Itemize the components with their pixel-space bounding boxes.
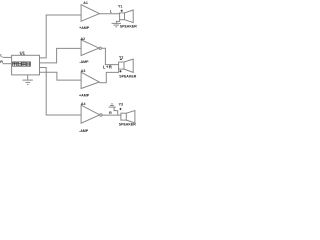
- svg-text:-AMP: -AMP: [79, 60, 89, 64]
- input wire L: [3, 56, 12, 58]
- svg-text:A1: A1: [83, 1, 88, 5]
- svg-text:L+R: L+R: [103, 65, 113, 70]
- wire A4 to speaker Y3: [102, 114, 121, 116]
- speaker Y1: [120, 10, 134, 23]
- op-amp A4: [81, 105, 100, 123]
- wire out1 to A1: [40, 15, 82, 58]
- op-amp A2: [81, 40, 99, 56]
- block U1 (divider circuit): [12, 55, 40, 75]
- svg-text:SPEAKER: SPEAKER: [119, 123, 136, 127]
- svg-text:R: R: [109, 111, 112, 115]
- svg-text:SPEAKER: SPEAKER: [119, 75, 136, 79]
- svg-text:U1: U1: [20, 50, 26, 55]
- label + (speaker Y2): [119, 70, 121, 72]
- wire A2 to speaker Y2 minus terminal: [101, 48, 118, 64]
- label + (speaker Y1): [121, 10, 123, 12]
- op-amp A3: [81, 72, 99, 88]
- label + (speaker Y3): [119, 108, 121, 110]
- svg-text:Y1: Y1: [118, 5, 122, 9]
- svg-text:Y3: Y3: [119, 102, 123, 106]
- label - (speaker Y2): [120, 58, 122, 61]
- svg-text:A3: A3: [81, 69, 86, 73]
- bubble A4: [100, 114, 102, 116]
- ground (speaker Y3, inverted above wire): [109, 104, 118, 115]
- wire out4 to A3: [40, 72, 82, 80]
- ground (speaker Y1): [112, 20, 121, 27]
- svg-text:+AMP: +AMP: [79, 93, 90, 97]
- svg-text:SPEAKER: SPEAKER: [120, 25, 137, 29]
- wire A3 to speaker Y2 plus terminal: [99, 69, 118, 83]
- ground (below U1): [23, 75, 33, 85]
- wire out3 to A4: [40, 68, 82, 116]
- svg-text:A2: A2: [81, 37, 86, 41]
- svg-text:+AMP: +AMP: [79, 26, 90, 30]
- speaker Y3: [121, 111, 135, 124]
- svg-text:R: R: [0, 60, 3, 64]
- speaker Y2: [119, 59, 134, 72]
- bubble A2: [99, 47, 101, 49]
- block text (CJK glyph blobs): [13, 62, 31, 66]
- wire out2 to A2: [40, 48, 82, 63]
- wire A1 to speaker Y1: [99, 13, 119, 15]
- input wire R: [3, 63, 12, 65]
- svg-text:-AMP: -AMP: [79, 129, 89, 133]
- svg-text:A4: A4: [81, 102, 86, 106]
- op-amp A1: [81, 5, 99, 22]
